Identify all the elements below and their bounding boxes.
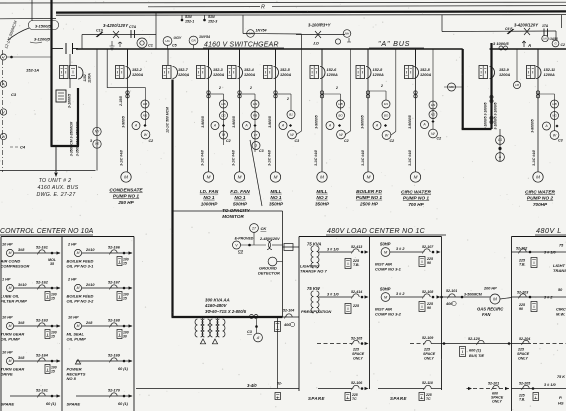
svg-text:1152: 1152 — [83, 74, 87, 81]
svg-text:M: M — [238, 175, 242, 180]
fuse C6F — [507, 29, 514, 34]
svg-text:75 KVA: 75 KVA — [307, 242, 321, 247]
svg-text:PUMP NO 1: PUMP NO 1 — [113, 194, 140, 200]
svg-text:3-1200(5: 3-1200(5 — [34, 37, 51, 42]
node - relay cluster 152-8 — [368, 90, 386, 92]
motor M circ water pump 1 — [410, 172, 420, 182]
svg-text:1 HP: 1 HP — [2, 278, 11, 282]
svg-text:1200A: 1200A — [544, 73, 555, 77]
CT - feeder 6 — [320, 91, 323, 94]
CT - tie riser ticks — [490, 95, 493, 98]
wire - thick incoming feeder left leg — [50, 0, 52, 146]
relay UA56 — [542, 35, 548, 41]
svg-text:3-900/5: 3-900/5 — [268, 116, 272, 128]
wire - bus stub from thick feeder — [52, 48, 64, 50]
svg-text:ONLY: ONLY — [424, 357, 434, 361]
svg-text:HS: HS — [431, 103, 435, 107]
motor M fd fan — [234, 172, 244, 182]
svg-text:NG: NG — [431, 113, 436, 117]
svg-text:OIL PP NO 3-2: OIL PP NO 3-2 — [67, 298, 95, 303]
svg-text:NO 1: NO 1 — [203, 195, 215, 201]
svg-text:YE: YE — [95, 142, 100, 146]
svg-text:R: R — [261, 5, 265, 11]
svg-text:SPACE: SPACE — [517, 352, 530, 356]
svg-text:3-350MCM 3-350MCM: 3-350MCM 3-350MCM — [70, 122, 74, 157]
fuse unit 52-164 — [45, 365, 50, 374]
svg-text:M: M — [384, 249, 388, 254]
svg-text:2 HP: 2 HP — [67, 278, 77, 282]
svg-text:15: 15 — [51, 297, 55, 301]
CT - feeder 2 — [126, 91, 129, 94]
svg-text:3-1/C #4/0: 3-1/C #4/0 — [361, 150, 365, 166]
svg-text:3 # 2: 3 # 2 — [396, 247, 405, 251]
wire - feeder 152-11 — [537, 49, 539, 172]
meter W1 — [0, 133, 6, 139]
svg-text:C3: C3 — [238, 250, 244, 254]
svg-text:52-166: 52-166 — [108, 246, 121, 250]
capacitor C7A — [130, 30, 132, 38]
wire - mcc row 52-161 — [10, 395, 60, 397]
svg-text:M: M — [9, 286, 12, 290]
svg-text:HB: HB — [552, 102, 556, 106]
motor M boiler fd pump — [363, 172, 373, 182]
wire - feeder 152-8 circ water pump 1 — [415, 49, 417, 172]
svg-text:60 (1): 60 (1) — [118, 367, 129, 371]
svg-text:3#8: 3#8 — [18, 248, 25, 252]
svg-text:C2: C2 — [437, 137, 442, 141]
svg-text:V: V — [2, 110, 5, 114]
svg-text:3 # 1/0: 3 # 1/0 — [544, 251, 556, 255]
svg-text:3 # 1/0: 3 # 1/0 — [327, 293, 339, 297]
svg-text:1200A: 1200A — [213, 73, 224, 77]
relay 27 CK — [250, 224, 259, 233]
node - relay cluster 152-4 — [240, 93, 256, 95]
meter V2 — [0, 109, 6, 115]
wire - feeder 152-3 — [208, 49, 210, 172]
svg-text:152-7: 152-7 — [178, 68, 189, 72]
svg-text:4160-480V: 4160-480V — [204, 303, 228, 308]
receptacle - power recepts delta — [75, 360, 80, 365]
svg-text:3-900/5: 3-900/5 — [232, 116, 236, 128]
svg-text:C3: C3 — [11, 92, 17, 97]
svg-text:DETECTOR: DETECTOR — [258, 271, 280, 276]
node - relay cluster 152-6 — [322, 93, 341, 95]
svg-text:J.D: J.D — [313, 42, 319, 46]
wire - thick transformer bus — [172, 316, 283, 318]
wire - spare row4 mid — [378, 388, 424, 390]
svg-text:1200A: 1200A — [373, 73, 384, 77]
svg-text:C5: C5 — [172, 44, 178, 48]
svg-text:TRANSF NO 7: TRANSF NO 7 — [300, 269, 327, 274]
svg-text:152-9: 152-9 — [499, 68, 510, 72]
wire - bus A end to tie — [430, 48, 463, 50]
wire - riser to balloon — [31, 0, 33, 21]
fuse unit 52-162 — [45, 292, 50, 301]
svg-text:GN: GN — [191, 39, 196, 43]
wire - PT vertical mill2 — [350, 49, 352, 131]
svg-text:DWG. E. 27-27: DWG. E. 27-27 — [36, 192, 76, 198]
svg-text:C3: C3 — [247, 330, 253, 334]
svg-text:60 (1): 60 (1) — [46, 402, 57, 406]
node - load center right box — [512, 236, 566, 238]
motor M mill 1 — [270, 172, 280, 182]
svg-text:52-161: 52-161 — [36, 246, 48, 250]
svg-text:152-3: 152-3 — [213, 68, 224, 72]
svg-text:52-414: 52-414 — [351, 290, 362, 294]
svg-text:C6 F: C6 F — [505, 27, 513, 31]
wire - mcc row 52-170 — [76, 395, 132, 397]
meter SYN 220 — [137, 38, 147, 48]
svg-text:C7A: C7A — [129, 25, 137, 29]
svg-text:3: 3 — [90, 139, 92, 143]
svg-text:C2: C2 — [390, 139, 395, 143]
svg-text:NO 8: NO 8 — [67, 376, 77, 381]
svg-text:3-1000/5: 3-1000/5 — [68, 93, 72, 108]
svg-text:2: 2 — [335, 86, 338, 90]
svg-text:30: 30 — [123, 335, 127, 339]
svg-text:SPACE: SPACE — [352, 352, 365, 356]
motor M 52-161 — [6, 249, 13, 256]
wire - spare row4 left — [318, 388, 352, 390]
motor M 52-168 — [74, 322, 81, 329]
svg-text:CONTROL CENTER NO 10A: CONTROL CENTER NO 10A — [0, 228, 94, 235]
svg-text:52-110: 52-110 — [422, 381, 433, 385]
wire - stub main to LC — [283, 316, 300, 318]
CT - feeder 11 — [536, 91, 539, 94]
svg-text:V: V — [235, 243, 238, 247]
svg-text:75 KW: 75 KW — [307, 286, 321, 291]
svg-text:NO 2: NO 2 — [316, 195, 328, 201]
svg-text:52-109: 52-109 — [422, 336, 433, 340]
svg-text:C3: C3 — [295, 139, 300, 143]
wire - bus tie 52-120 — [442, 343, 512, 345]
CT - feeder 8 — [414, 91, 417, 94]
svg-text:A: A — [375, 124, 379, 128]
svg-text:500HP: 500HP — [233, 201, 248, 206]
svg-text:90: 90 — [427, 261, 431, 265]
relay NG tie — [444, 86, 462, 88]
svg-text:3-900/5: 3-900/5 — [122, 116, 126, 128]
svg-text:M: M — [77, 286, 80, 290]
motor M circ water pump 2 — [533, 172, 543, 182]
wire - PT fuse line — [82, 34, 156, 36]
svg-text:HB: HB — [143, 102, 147, 106]
node - relay cluster 152-2 — [141, 100, 149, 108]
wire - relay line — [243, 33, 302, 36]
svg-text:C2: C2 — [344, 139, 349, 143]
svg-text:BO: BO — [338, 114, 343, 118]
svg-text:3-1000/5 3-1000/5: 3-1000/5 3-1000/5 — [494, 102, 498, 129]
svg-text:3-1000/5 3-1000/5: 3-1000/5 3-1000/5 — [484, 102, 488, 129]
svg-text:M: M — [9, 251, 12, 255]
svg-text:225: 225 — [517, 348, 525, 352]
bus A 4160V — [76, 48, 430, 50]
svg-text:52-201: 52-201 — [488, 382, 499, 386]
svg-text:PRECIPITATION: PRECIPITATION — [301, 309, 331, 314]
node - CT balloon 3-1500/5 — [29, 21, 59, 30]
svg-text:4160 AUX. BUS: 4160 AUX. BUS — [38, 185, 79, 191]
node - relay cluster 152-11 — [538, 93, 555, 95]
svg-text:T.B.: T.B. — [519, 263, 526, 267]
wire - thick feeder 152-7 to control center — [171, 80, 173, 318]
svg-text:3#10: 3#10 — [18, 283, 27, 287]
svg-text:W: W — [385, 133, 389, 137]
wire - thick tie up leg — [490, 43, 492, 129]
CT - transformer bus — [250, 315, 254, 319]
wire - feeder 152-8 — [367, 49, 369, 172]
svg-text:3-1500(5: 3-1500(5 — [35, 23, 52, 28]
svg-text:C2: C2 — [226, 139, 231, 143]
svg-text:W: W — [144, 133, 148, 137]
svg-text:NY: NY — [95, 130, 100, 134]
wire - PT vertical boiler pump — [395, 49, 397, 132]
svg-text:P.: P. — [559, 395, 562, 400]
svg-text:152-11: 152-11 — [544, 68, 556, 72]
svg-text:W: W — [553, 133, 557, 137]
svg-text:35: 35 — [50, 262, 55, 266]
svg-text:HS: HS — [221, 102, 225, 106]
wire - left stub rail — [0, 17, 56, 19]
svg-text:UGY: UGY — [174, 36, 182, 40]
wire - far right rail drop — [561, 15, 563, 28]
fuse C1S — [96, 32, 103, 37]
svg-text:A: A — [1, 82, 5, 86]
svg-text:52-120: 52-120 — [468, 337, 481, 341]
wire - row3 right LC 52-204 dashed — [512, 343, 532, 345]
svg-text:1200A: 1200A — [280, 73, 291, 77]
svg-text:75: 75 — [559, 244, 564, 248]
svg-text:MILL: MILL — [270, 189, 281, 195]
relay NH — [343, 30, 351, 38]
node - MCC box outline — [1, 236, 134, 238]
svg-text:10 HP: 10 HP — [2, 351, 13, 355]
label - arrow A — [522, 41, 526, 47]
svg-text:400: 400 — [283, 323, 291, 327]
svg-text:CK: CK — [261, 226, 268, 231]
svg-text:M: M — [77, 251, 80, 255]
svg-text:A: A — [328, 124, 332, 128]
svg-text:HS: HS — [253, 102, 257, 106]
relay 1NY54 b — [189, 36, 198, 45]
svg-text:3-9000/5: 3-9000/5 — [408, 115, 412, 128]
relay UGY C5 — [163, 37, 172, 46]
svg-text:2: 2 — [218, 86, 221, 90]
svg-text:M: M — [9, 359, 12, 363]
svg-text:3-9000/5: 3-9000/5 — [361, 115, 365, 128]
wire - feeder 152-5 — [275, 49, 277, 172]
wire - aux fuse line — [296, 34, 345, 36]
wire - right PT fuse line — [442, 30, 556, 33]
svg-text:10 HP: 10 HP — [2, 243, 13, 247]
svg-text:3-8000/5: 3-8000/5 — [531, 119, 535, 132]
svg-text:LT: LT — [254, 133, 258, 137]
svg-text:PUMP NO 2: PUMP NO 2 — [527, 196, 554, 202]
svg-text:M.W.: M.W. — [556, 312, 565, 317]
svg-text:W: W — [290, 133, 294, 137]
svg-text:M1: M1 — [384, 102, 388, 106]
svg-text:RB: RB — [253, 114, 257, 118]
svg-text:1200A: 1200A — [499, 73, 510, 77]
svg-text:A: A — [498, 155, 502, 159]
svg-text:G: G — [554, 42, 557, 46]
svg-text:M: M — [124, 175, 128, 180]
svg-text:3-4/0: 3-4/0 — [247, 383, 257, 388]
wire - PT riser — [96, 49, 98, 171]
svg-text:152-8: 152-8 — [373, 68, 384, 72]
wire - row1 right LC 52-202 — [512, 251, 566, 253]
svg-text:FAN: FAN — [482, 312, 491, 317]
svg-text:700HP: 700HP — [533, 202, 548, 207]
svg-text:3 1000/5: 3 1000/5 — [493, 41, 509, 46]
svg-text:1NY54: 1NY54 — [256, 29, 267, 33]
svg-text:PUMP NO 1: PUMP NO 1 — [403, 196, 430, 202]
breaker 152-2 — [127, 49, 129, 66]
svg-text:3-4200/120Y: 3-4200/120Y — [514, 23, 539, 28]
wire - thick tie bottom — [462, 128, 492, 130]
svg-text:B1: B1 — [289, 113, 293, 117]
svg-text:52-164: 52-164 — [36, 354, 49, 358]
svg-text:3 # 2: 3 # 2 — [396, 292, 405, 296]
svg-text:3 # 2: 3 # 2 — [544, 296, 553, 300]
svg-text:52-: 52- — [277, 382, 283, 386]
svg-text:SPARE: SPARE — [308, 396, 325, 401]
svg-text:3 # 1/0: 3 # 1/0 — [544, 383, 556, 387]
fuse unit 52-168 — [117, 330, 122, 339]
svg-text:52-104: 52-104 — [283, 309, 294, 313]
svg-text:HB: HB — [338, 102, 342, 106]
svg-text:3-500MCM: 3-500MCM — [464, 293, 483, 297]
wire - gas recirc fan tap — [442, 296, 491, 298]
breaker 152-7 — [163, 66, 172, 79]
fuse X1 — [113, 31, 119, 38]
svg-text:3-1/C #4/0: 3-1/C #4/0 — [120, 150, 124, 166]
svg-text:200 HP: 200 HP — [483, 287, 497, 291]
svg-text:75 K: 75 K — [557, 375, 565, 379]
svg-text:UA: UA — [543, 36, 547, 40]
svg-text:FILTER PUMP: FILTER PUMP — [1, 298, 28, 303]
svg-text:UG: UG — [165, 39, 170, 43]
wire - row4 right LC 52-205 — [512, 388, 566, 390]
svg-text:COMP NO 3-2: COMP NO 3-2 — [375, 312, 402, 317]
wire - thick tie down leg — [462, 49, 464, 129]
svg-text:A: A — [213, 124, 217, 128]
meter V1 — [1, 54, 7, 60]
svg-text:3-1/C #4/0: 3-1/C #4/0 — [268, 150, 272, 166]
svg-text:A: A — [244, 124, 248, 128]
capacitor - bus coupling — [65, 43, 67, 54]
svg-text:M: M — [9, 324, 12, 328]
breaker 152-9 on tie riser — [479, 66, 488, 79]
svg-text:HS: HS — [558, 401, 564, 406]
svg-text:OIL PUMP: OIL PUMP — [67, 336, 87, 341]
svg-text:W: W — [431, 132, 435, 136]
svg-text:M: M — [536, 175, 540, 180]
svg-text:M: M — [207, 175, 211, 180]
svg-text:2500 HP: 2500 HP — [359, 201, 379, 206]
svg-text:OIL PP NO 3-1: OIL PP NO 3-1 — [67, 263, 95, 268]
svg-text:60 (1): 60 (1) — [118, 402, 129, 406]
node - relay cluster 152-5 — [276, 93, 292, 95]
motor M id fan — [203, 172, 213, 182]
fuse X2 — [315, 31, 321, 38]
wire - feeder 152-4 — [239, 49, 241, 172]
svg-text:225: 225 — [352, 348, 360, 352]
svg-text:CIRC WATER: CIRC WATER — [401, 190, 432, 196]
relay G C2 — [552, 40, 559, 47]
svg-text:52-107: 52-107 — [422, 245, 434, 249]
svg-text:2: 2 — [286, 97, 289, 101]
motor M mill 2 — [317, 172, 327, 182]
svg-text:1000HP: 1000HP — [201, 201, 219, 206]
node - relay cluster 152-9 — [432, 49, 434, 129]
svg-text:2#10: 2#10 — [85, 248, 95, 252]
svg-text:52-167: 52-167 — [108, 281, 121, 285]
svg-text:2-15/5: 2-15/5 — [119, 96, 123, 107]
wire - relay line drop — [242, 15, 244, 33]
bus B 4160V — [490, 48, 566, 50]
svg-text:ONLY: ONLY — [492, 400, 502, 404]
svg-text:A: A — [544, 124, 548, 128]
svg-text:G: G — [255, 144, 258, 148]
svg-text:M: M — [493, 297, 497, 302]
svg-text:TC: TC — [352, 397, 357, 401]
svg-text:15: 15 — [123, 297, 127, 301]
svg-text:600 (1): 600 (1) — [469, 349, 482, 353]
svg-text:C2: C2 — [149, 139, 154, 143]
svg-text:C3: C3 — [259, 149, 264, 153]
svg-text:152-2: 152-2 — [132, 68, 143, 72]
svg-text:15: 15 — [123, 262, 127, 266]
svg-text:52-163: 52-163 — [36, 319, 49, 323]
svg-text:NH: NH — [345, 32, 350, 36]
meter G1 chain — [499, 129, 501, 161]
CT - feeder 3 — [207, 91, 210, 94]
CT - feeder 5 — [274, 91, 277, 94]
svg-text:NO 1: NO 1 — [270, 195, 282, 201]
svg-text:2#8: 2#8 — [85, 321, 93, 325]
node - relay cluster 152-3 — [209, 93, 224, 95]
svg-text:2: 2 — [380, 84, 383, 88]
breaker 152-4 — [239, 49, 241, 66]
svg-text:480V LOAD CENTER NO 1C: 480V LOAD CENTER NO 1C — [327, 228, 426, 235]
svg-text:1100A: 1100A — [88, 73, 92, 83]
svg-text:T.B.: T.B. — [353, 263, 360, 267]
svg-text:A: A — [422, 123, 426, 127]
winding delta symbols — [200, 339, 217, 344]
svg-text:SPARE: SPARE — [1, 402, 15, 407]
svg-text:3-1/C #4/0: 3-1/C #4/0 — [314, 150, 318, 166]
svg-text:52-106: 52-106 — [351, 381, 363, 385]
svg-text:152-8: 152-8 — [420, 68, 431, 72]
svg-text:52-105: 52-105 — [351, 337, 363, 341]
svg-text:3-1/C #4/0: 3-1/C #4/0 — [408, 150, 412, 166]
wire - top feeder rail R0 — [0, 1, 566, 4]
relay 1M on bus B — [516, 49, 518, 82]
svg-text:152-5: 152-5 — [280, 68, 291, 72]
svg-text:12-1/C 500 MCM: 12-1/C 500 MCM — [166, 107, 170, 133]
svg-text:I.D. FAN: I.D. FAN — [200, 189, 219, 195]
svg-text:PUMP NO 1: PUMP NO 1 — [356, 195, 383, 201]
svg-text:T.B.: T.B. — [519, 398, 525, 402]
svg-text:3#8: 3#8 — [18, 356, 25, 360]
svg-text:C3: C3 — [558, 139, 563, 143]
breaker - 480V main — [277, 317, 279, 389]
svg-text:M: M — [274, 175, 278, 180]
svg-text:TO UNIT # 2: TO UNIT # 2 — [39, 178, 72, 184]
svg-text:COMP NO 3-1: COMP NO 3-1 — [375, 267, 402, 272]
motor M 52-167 — [74, 284, 81, 291]
breaker 152-3 — [208, 49, 210, 66]
